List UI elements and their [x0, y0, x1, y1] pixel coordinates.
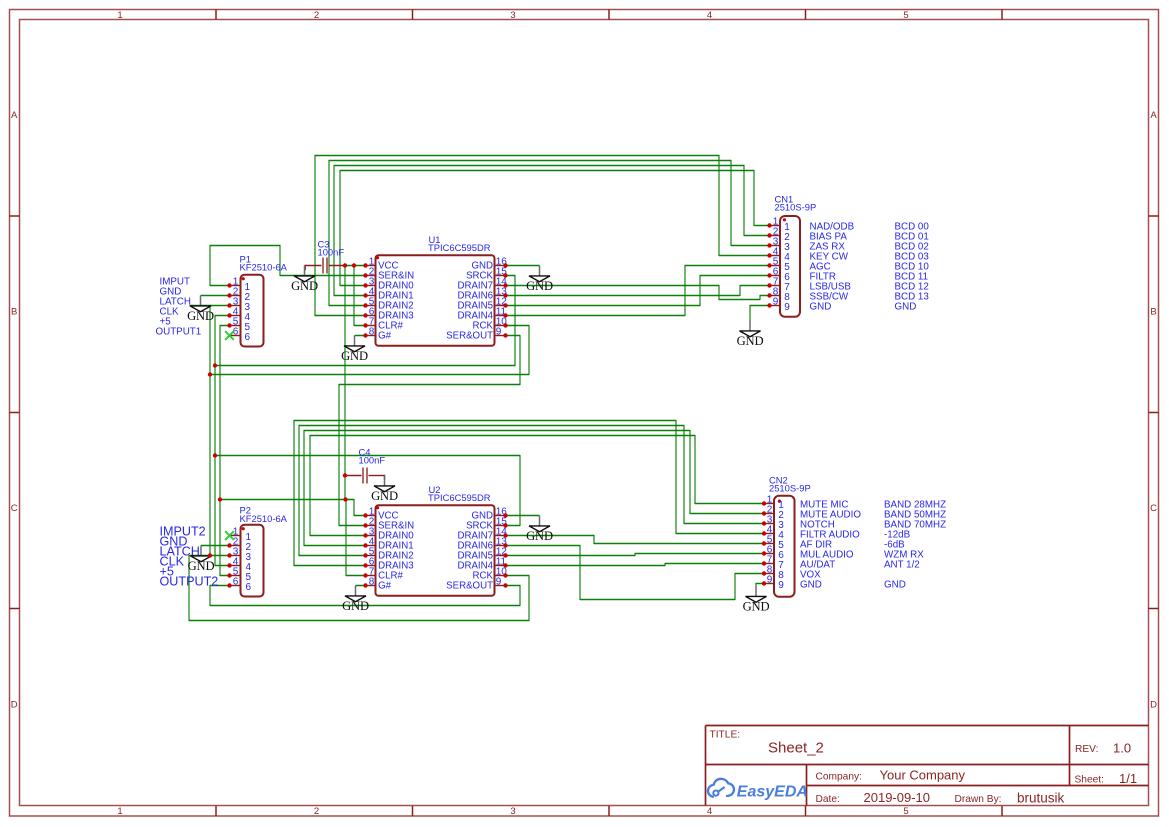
wire U1 DRAIN1 to CN1.2 [334, 165, 770, 296]
CN1 net labels [810, 221, 930, 312]
svg-text:GND: GND [743, 600, 770, 614]
svg-text:2510S-9P: 2510S-9P [769, 483, 811, 494]
wire U1 DRAIN0 to CN1.1 [340, 170, 770, 286]
wire CLK branch to U2 SRCK [215, 455, 520, 526]
title block title Sheet_2 [768, 740, 824, 757]
ic U1 pin stubs [366, 266, 505, 336]
svg-text:4: 4 [707, 806, 712, 817]
svg-text:9: 9 [496, 577, 502, 588]
svg-text:B: B [1150, 306, 1156, 317]
title block revision 1.0 [1113, 740, 1131, 755]
svg-text:9: 9 [767, 575, 773, 586]
svg-text:GND: GND [737, 334, 764, 348]
ic U1 pin names [378, 261, 494, 342]
svg-text:8: 8 [369, 577, 375, 588]
EasyEDA logo cloud [708, 779, 734, 797]
CN2 net labels [800, 499, 946, 590]
svg-text:REV:: REV: [1075, 744, 1098, 755]
wire U2 DRAIN4 to CN2.7 [506, 563, 765, 566]
svg-text:Your Company: Your Company [880, 768, 966, 783]
wire P2.2 to ground [201, 545, 230, 547]
connector P2 value KF2510-6A [240, 513, 288, 524]
connector P1 pin stubs 1-6 [230, 286, 241, 336]
ground at U1 G# [341, 336, 368, 364]
ground at C4 [371, 476, 398, 504]
no-connect X P1 pin6 [225, 331, 234, 340]
wire P1.2 to ground [201, 295, 230, 297]
svg-text:TPIC6C595DR: TPIC6C595DR [428, 242, 491, 253]
wire U2 DRAIN1 to CN2.2 [304, 430, 764, 546]
svg-text:3: 3 [510, 10, 515, 21]
junction and pin dots [208, 223, 772, 587]
wire U1 DRAIN2 to CN1.3 [329, 160, 770, 306]
wire LATCH vertical [209, 305, 211, 556]
no-connect X P2 pin1 [225, 531, 234, 540]
wire +5 vertical C3 to C4 [344, 265, 346, 500]
svg-text:OUTPUT2: OUTPUT2 [160, 574, 219, 588]
svg-text:Company:: Company: [816, 772, 862, 783]
capacitor C4 reference C4 [359, 447, 371, 458]
wire U2 DRAIN3 to CN2.4 [294, 420, 764, 566]
wire U1 RCK to LATCH [210, 325, 529, 375]
svg-text:GND: GND [884, 579, 906, 590]
title block Sheet label [1075, 775, 1104, 786]
svg-text:ANT 1/2: ANT 1/2 [884, 559, 920, 570]
wire CLK P1.4 to P2.4 [215, 315, 230, 566]
svg-text:1: 1 [117, 806, 122, 817]
ground at U2 GND pin16 [526, 516, 553, 544]
capacitor C3 [305, 258, 345, 274]
svg-text:GND: GND [291, 279, 318, 293]
svg-text:Sheet_2: Sheet_2 [768, 740, 824, 757]
svg-text:9: 9 [773, 297, 779, 308]
svg-text:Sheet:: Sheet: [1075, 775, 1104, 786]
capacitor C3 reference C3 [318, 239, 330, 250]
connector P2 body [241, 525, 264, 597]
svg-text:TITLE:: TITLE: [710, 729, 741, 740]
wire LATCH to U2 RCK [189, 555, 529, 621]
wire U1 DRAIN3 to CN1.4 [315, 155, 770, 316]
svg-text:KF2510-6A: KF2510-6A [240, 262, 288, 273]
ground at CN1 pin9 [737, 321, 764, 349]
ic U1 body [376, 255, 495, 346]
connector P2 pin numbers [233, 527, 252, 593]
ic U1 pin numbers [369, 257, 508, 338]
svg-text:C: C [11, 503, 18, 514]
ic U2 pin stubs [366, 516, 505, 586]
wire U1 SER&OUT to U2 SER&IN [339, 335, 520, 526]
wire CN2.9 to ground [756, 583, 764, 587]
connector CN1 origin dot [783, 218, 786, 221]
ground at U2 G# [342, 586, 369, 614]
wire U2 DRAIN5 to CN2.6 [506, 553, 765, 556]
connector CN1 reference CN1 [775, 194, 794, 205]
title block sheet 1/1 [1119, 771, 1137, 786]
svg-text:GND: GND [800, 579, 822, 590]
svg-text:KF2510-6A: KF2510-6A [240, 513, 288, 524]
connector CN2 body [774, 496, 795, 597]
svg-text:6: 6 [233, 577, 239, 588]
connector CN1 body [780, 216, 800, 317]
svg-text:1/1: 1/1 [1119, 771, 1137, 786]
title block date 2019-09-10 [864, 790, 931, 805]
svg-text:GND: GND [341, 349, 368, 363]
wire U1 DRAIN6 to CN1.7 [506, 285, 770, 296]
svg-text:D: D [1150, 699, 1157, 710]
title block company Your Company [880, 768, 966, 783]
ground at CN2 pin9 [743, 586, 770, 614]
ground at P2 pin2 [188, 546, 215, 574]
wire U1 CLR# pullup [354, 265, 366, 326]
wire +5 P1.5 to P2.5 [220, 325, 230, 576]
svg-text:GND: GND [526, 529, 553, 543]
svg-text:4: 4 [707, 10, 712, 21]
connector P1 body [241, 275, 264, 347]
svg-text:EasyEDA: EasyEDA [737, 783, 808, 800]
wire U2 G# to ground [356, 585, 366, 587]
svg-text:G#: G# [378, 331, 392, 342]
connector CN1 pin stubs 1-9 [770, 226, 781, 306]
title block Company label [816, 772, 862, 783]
ground at C3 [291, 266, 318, 294]
P2 net labels IMPUT2 GND LATCH CLK +5 OUTPUT2 [160, 524, 219, 588]
svg-text:GND: GND [895, 301, 917, 312]
wire U1 DRAIN5 to CN1.6 [506, 275, 770, 306]
svg-text:TPIC6C595DR: TPIC6C595DR [428, 492, 491, 503]
svg-text:5: 5 [903, 806, 908, 817]
wire CN1.9 to ground [750, 305, 770, 321]
ground at P1 pin2 [187, 296, 214, 324]
ic U2 pin numbers [369, 507, 508, 588]
svg-text:D: D [11, 699, 18, 710]
connector P2 pin stubs 1-6 [230, 536, 241, 586]
wire U1 DRAIN7 to CN1.8 [506, 285, 770, 300]
svg-text:GND: GND [810, 301, 832, 312]
wire CLK branch to U1 SRCK [215, 275, 515, 366]
ic U2 reference U2 [429, 484, 441, 495]
svg-text:2019-09-10: 2019-09-10 [864, 790, 931, 805]
P1 net labels IMPUT GND LATCH CLK +5 OUTPUT1 [156, 277, 202, 338]
svg-text:2: 2 [314, 10, 319, 21]
wire +5 branch to U2 VCC [220, 499, 366, 516]
wire U1 GND pin16 [506, 265, 540, 267]
connector CN2 origin dot [778, 500, 781, 503]
svg-text:3: 3 [510, 806, 515, 817]
title block Drawn By label [955, 794, 1002, 805]
connector P1 reference P1 [240, 253, 251, 264]
svg-text:100nF: 100nF [318, 246, 345, 257]
wire LATCH P2.3 stub [190, 555, 230, 557]
wire U1 DRAIN4 to CN1.5 [506, 265, 770, 316]
svg-text:B: B [11, 306, 17, 317]
svg-text:OUTPUT1: OUTPUT1 [156, 327, 202, 338]
ic U2 pin names [378, 511, 494, 592]
svg-text:6: 6 [245, 332, 251, 343]
wire +5 to U2 CLR# [346, 499, 366, 576]
svg-text:SER&OUT: SER&OUT [446, 581, 493, 592]
svg-text:GND: GND [188, 559, 215, 573]
svg-text:Drawn By:: Drawn By: [955, 794, 1002, 805]
connector CN2 pin numbers [767, 495, 785, 591]
connector CN1 pin numbers [773, 217, 791, 313]
ground at U1 GND pin16 [526, 266, 553, 294]
svg-text:GND: GND [187, 309, 214, 323]
svg-text:GND: GND [526, 279, 553, 293]
ic U2 origin dot [376, 506, 379, 509]
wire OUTPUT2 P2.6 to U2 SER&OUT [210, 585, 520, 606]
wire LATCH P1.3 stub [190, 305, 230, 307]
svg-text:GND: GND [342, 599, 369, 613]
svg-text:9: 9 [778, 580, 784, 591]
svg-text:2: 2 [314, 806, 319, 817]
svg-text:5: 5 [903, 10, 908, 21]
svg-text:G#: G# [378, 581, 392, 592]
svg-text:Date:: Date: [816, 794, 840, 805]
connector P1 value KF2510-6A [240, 262, 288, 273]
connector CN1 value 2510S-9P [775, 201, 817, 212]
title block Date label [816, 794, 840, 805]
svg-text:A: A [11, 110, 18, 121]
ic U2 value TPIC6C595DR [428, 492, 491, 503]
EasyEDA logo text [737, 783, 808, 800]
svg-text:9: 9 [784, 302, 790, 313]
svg-text:8: 8 [369, 327, 375, 338]
wire U2 GND pin16 [506, 515, 540, 517]
wire U1 VCC row [345, 265, 366, 267]
wire U2 DRAIN6 to CN2.8 [506, 545, 765, 600]
wire IMPUT P1.1 to U1 SER&IN [210, 245, 366, 286]
title block author brutusik [1017, 790, 1065, 805]
ic U1 origin dot [376, 256, 379, 259]
connector P2 origin dot [242, 527, 245, 530]
connector P1 origin dot [242, 277, 245, 280]
capacitor C4 [345, 468, 385, 484]
ic U1 reference U1 [429, 234, 441, 245]
connector P2 reference P2 [240, 505, 251, 516]
capacitor C3 value 100nF [318, 246, 345, 257]
svg-text:brutusik: brutusik [1017, 790, 1065, 805]
ic U1 value TPIC6C595DR [428, 242, 491, 253]
svg-text:1.0: 1.0 [1113, 740, 1131, 755]
wire U2 DRAIN0 to CN2.1 [310, 435, 764, 536]
connector CN2 reference CN2 [769, 474, 788, 485]
svg-text:C: C [1150, 503, 1157, 514]
svg-text:SER&OUT: SER&OUT [446, 331, 493, 342]
capacitor C4 value 100nF [359, 455, 386, 466]
svg-text:2510S-9P: 2510S-9P [775, 201, 817, 212]
svg-text:1: 1 [117, 10, 122, 21]
svg-text:6: 6 [246, 582, 252, 593]
svg-text:9: 9 [496, 327, 502, 338]
wire U1 G# to ground [355, 335, 366, 337]
svg-text:100nF: 100nF [359, 455, 386, 466]
title block TITLE label [710, 729, 741, 740]
ic U2 body [376, 505, 495, 596]
connector CN2 pin stubs 1-9 [764, 504, 774, 584]
connector P1 pin numbers [233, 277, 251, 343]
svg-text:GND: GND [371, 489, 398, 503]
title block REV label [1075, 744, 1098, 755]
svg-text:A: A [1150, 110, 1157, 121]
wire U2 DRAIN2 to CN2.3 [299, 425, 764, 556]
wire U2 DRAIN7 to CN2.5 [506, 535, 765, 544]
title block lines [706, 726, 1149, 806]
connector CN2 value 2510S-9P [769, 483, 811, 494]
